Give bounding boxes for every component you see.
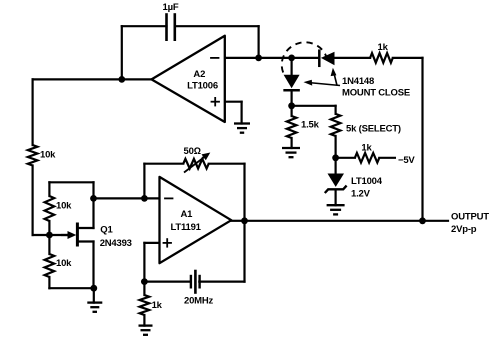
node A2 output junction: [118, 76, 125, 83]
diode 1N4148 (vertical): [284, 75, 300, 91]
ground (LT1004): [327, 205, 345, 214]
wire 50ohm row right: [209, 163, 245, 165]
wire LT1004 ground lead: [335, 191, 337, 205]
wire Q1 source vertical: [92, 242, 94, 289]
wire 1k to right rail corner: [393, 57, 423, 59]
svg-text:A1: A1: [181, 209, 194, 220]
op-amp A1: [160, 177, 232, 263]
node divider/gate junction: [46, 232, 53, 239]
wire A1 minus vertical (top row to drain): [92, 182, 94, 228]
wire A2 plus ground drop: [241, 102, 243, 124]
svg-text:A2: A2: [193, 69, 205, 80]
pointer arrow to horizontal diode: [331, 68, 337, 86]
wire A2 minus row to diode node: [225, 57, 319, 59]
wire 50ohm feedback drop: [143, 164, 145, 199]
label 10k (A2 input): [40, 149, 56, 160]
wire 1.5k top lead: [291, 106, 293, 116]
svg-text:2N4393: 2N4393: [100, 238, 132, 249]
crystal 20MHz: [191, 271, 200, 293]
resistor 10k (divider top): [45, 182, 55, 235]
svg-text:1k: 1k: [361, 143, 372, 154]
wire left rail lower (10k to gate node): [31, 166, 33, 236]
label A2: [193, 69, 205, 80]
wire A1 minus input row: [94, 197, 160, 199]
wire diode to 1k: [335, 57, 371, 59]
node 50ohm feedback junction: [141, 195, 148, 202]
label 1.5k: [301, 119, 320, 130]
wire 1k(-5V) left lead: [336, 157, 355, 159]
wire output row: [245, 220, 449, 222]
wire crystal row right: [199, 281, 244, 283]
label A1: [181, 209, 194, 220]
pointer arrow to vertical diode: [304, 80, 341, 86]
label -5V: [398, 155, 415, 166]
label Q1: [100, 225, 113, 236]
node output/right-rail junction: [419, 217, 426, 224]
wire LT1004 top lead: [335, 158, 337, 174]
wire diode anode lead: [291, 58, 293, 75]
resistor 1k (A1 plus): [140, 295, 150, 315]
node Q1 source/ground junction: [90, 285, 97, 292]
wire junction row 1.5k to 5k: [292, 105, 336, 107]
resistor 10k (divider bottom): [45, 235, 55, 288]
label LT1006: [187, 81, 218, 92]
ground (1k A1 plus): [139, 326, 153, 335]
svg-text:1k: 1k: [152, 300, 163, 311]
node 5k/1k/LT1004 junction: [332, 154, 339, 161]
wire crystal row left: [144, 281, 191, 283]
svg-text:1N4148: 1N4148: [342, 76, 374, 87]
svg-text:1k: 1k: [378, 42, 389, 53]
ground (A2 plus): [234, 124, 250, 133]
wire gate row (rail to divider node): [33, 234, 50, 236]
label 10k (divider top): [56, 200, 72, 211]
wire top feedback (A2 output to 1uF left plate): [122, 25, 167, 27]
wire right rail: [421, 58, 423, 221]
svg-text:MOUNT CLOSE: MOUNT CLOSE: [342, 88, 410, 99]
wire Q1 ground lead: [93, 288, 95, 302]
ground (Q1 source): [87, 303, 102, 312]
label 1k (A1 plus): [152, 300, 163, 311]
resistor 10k (A2 input): [28, 145, 38, 166]
wire A1 plus drop to crystal row: [143, 243, 145, 282]
wire diode cathode lead: [291, 90, 293, 106]
label 2Vp-p: [451, 224, 477, 235]
wire 1k lead below plus node: [143, 282, 145, 295]
wire -5V lead: [379, 157, 395, 159]
zener LT1004: [325, 174, 347, 194]
svg-text:−5V: −5V: [398, 155, 415, 166]
label 2N4393: [100, 238, 132, 249]
node A1 minus junction: [90, 195, 97, 202]
svg-text:50Ω: 50Ω: [184, 146, 201, 157]
svg-text:LT1006: LT1006: [187, 81, 218, 92]
wire 50ohm row left: [144, 163, 183, 165]
ground (1.5k): [282, 148, 300, 157]
label 20MHz: [184, 295, 214, 306]
diode 1N4148 (horizontal): [319, 51, 334, 66]
svg-text:LT1191: LT1191: [170, 222, 201, 233]
label LT1191: [170, 222, 201, 233]
wire A2 plus row: [225, 101, 242, 103]
wire A1 plus input row: [144, 242, 159, 244]
resistor 5k: [331, 114, 341, 136]
potentiometer 50 ohm: [183, 153, 210, 173]
resistor 1k (-5V): [355, 153, 379, 163]
wire A2 output row: [33, 78, 152, 80]
svg-text:Q1: Q1: [100, 225, 113, 236]
label 1.2V: [351, 189, 371, 200]
resistor 1.5k: [287, 116, 297, 138]
transistor Q1: [62, 223, 94, 247]
node feedback corner junction: [255, 55, 262, 62]
wire Q1 bottom row: [49, 287, 93, 289]
wire cap-corner drop: [258, 26, 260, 58]
wire vertical feedback drop to A2 output node: [121, 26, 123, 79]
label 50 ohm: [184, 146, 201, 157]
svg-text:LT1004: LT1004: [351, 176, 383, 187]
svg-text:1.5k: 1.5k: [301, 119, 320, 130]
node diode anode junction: [288, 55, 295, 62]
node A1 plus/1k junction: [141, 278, 148, 285]
wire 5k bottom lead: [335, 136, 337, 158]
wire 1k to ground lead: [143, 315, 145, 326]
op-amp A2: [152, 36, 225, 122]
label 1k (top): [378, 42, 389, 53]
wire 1uF right plate to corner: [175, 25, 259, 27]
wire left rail upper (to 10k): [31, 79, 33, 145]
capacitor 1uF: [167, 15, 175, 40]
node 1.5k/5k junction: [288, 102, 295, 109]
thermal coupling loop (dashed): [282, 42, 328, 72]
svg-text:10k: 10k: [56, 258, 72, 269]
wire gate lead (divider node to Q1 gate): [49, 234, 70, 236]
node A1 output junction: [241, 217, 248, 224]
wire A1 right vertical (50ohm row to crystal row): [243, 164, 245, 282]
label OUTPUT: [451, 211, 489, 222]
wire divider top row: [49, 181, 93, 183]
svg-text:1µF: 1µF: [163, 2, 179, 13]
label 5k (SELECT): [346, 124, 401, 135]
resistor 1k (top): [370, 53, 393, 63]
svg-text:20MHz: 20MHz: [184, 295, 214, 306]
label LT1004: [351, 176, 383, 187]
label 10k (divider bottom): [56, 258, 72, 269]
svg-text:10k: 10k: [56, 200, 72, 211]
svg-text:OUTPUT: OUTPUT: [451, 211, 489, 222]
label 1N4148: [342, 76, 374, 87]
wire 1.5k ground lead: [291, 138, 293, 148]
svg-text:5k (SELECT): 5k (SELECT): [346, 124, 401, 135]
label 1uF: [163, 2, 179, 13]
svg-text:1.2V: 1.2V: [351, 189, 371, 200]
wire A1 output stub: [231, 220, 244, 222]
svg-text:2Vp-p: 2Vp-p: [451, 224, 477, 235]
wire 5k top lead: [335, 106, 337, 114]
label MOUNT CLOSE: [342, 88, 410, 99]
label 1k (-5V): [361, 143, 372, 154]
svg-text:10k: 10k: [40, 149, 56, 160]
